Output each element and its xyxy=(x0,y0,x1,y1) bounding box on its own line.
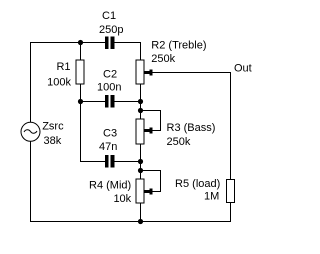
svg-text:250k: 250k xyxy=(151,53,175,65)
svg-text:250k: 250k xyxy=(167,136,191,148)
svg-text:R5 (load): R5 (load) xyxy=(175,178,220,190)
svg-text:1M: 1M xyxy=(204,191,219,203)
svg-text:10k: 10k xyxy=(113,193,131,205)
svg-text:47n: 47n xyxy=(99,141,117,153)
svg-text:R1: R1 xyxy=(56,61,70,73)
svg-text:R2 (Treble): R2 (Treble) xyxy=(151,40,206,52)
svg-text:100n: 100n xyxy=(97,82,121,94)
svg-text:Zsrc: Zsrc xyxy=(42,120,64,132)
svg-text:R4 (Mid): R4 (Mid) xyxy=(89,180,131,192)
svg-text:38k: 38k xyxy=(44,135,62,147)
svg-text:100k: 100k xyxy=(47,77,71,89)
svg-text:Out: Out xyxy=(234,62,252,74)
svg-text:C3: C3 xyxy=(103,128,117,140)
svg-text:C1: C1 xyxy=(102,10,116,22)
svg-text:R3 (Bass): R3 (Bass) xyxy=(167,122,216,134)
svg-text:C2: C2 xyxy=(103,69,117,81)
svg-text:250p: 250p xyxy=(99,24,123,36)
